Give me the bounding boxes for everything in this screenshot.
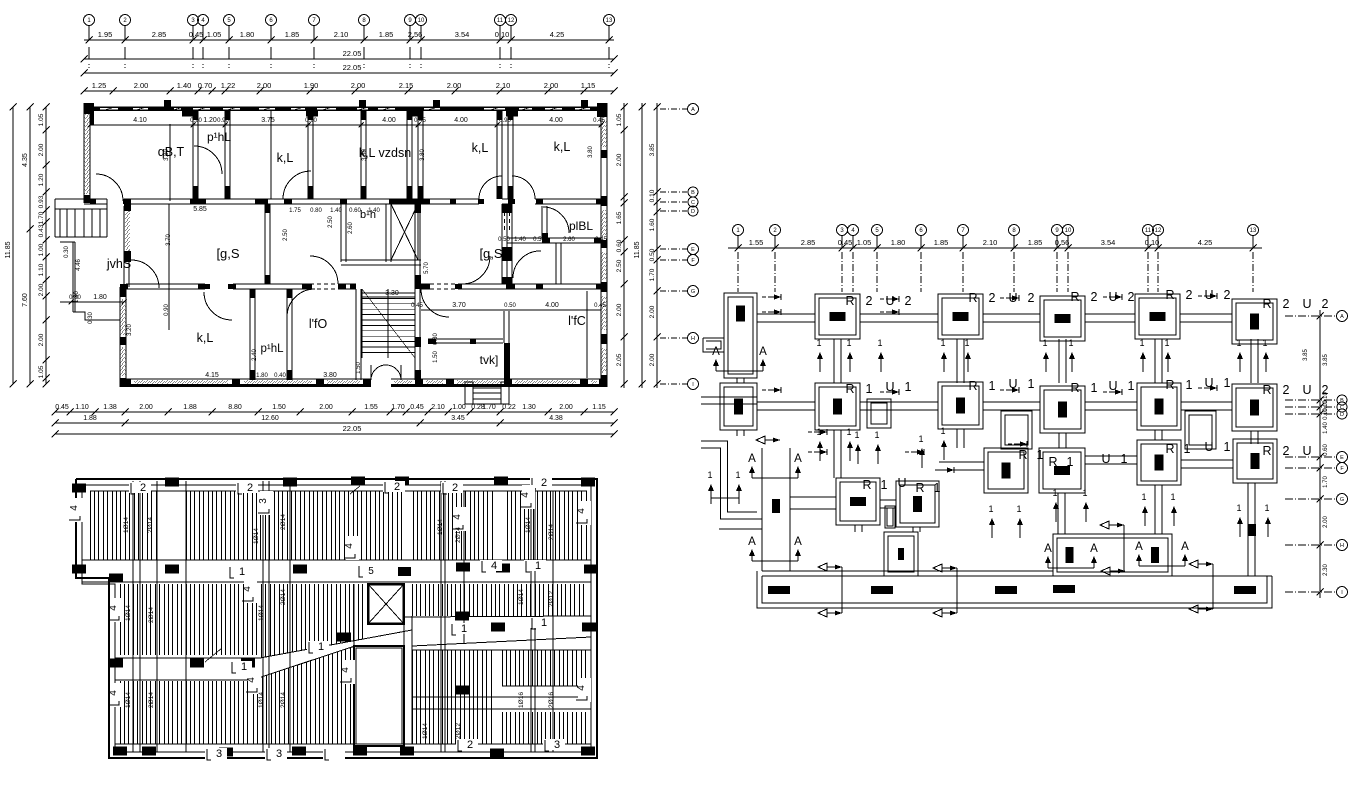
svg-text:1Ø14: 1Ø14 — [525, 517, 532, 533]
svg-text:3: 3 — [554, 739, 560, 751]
svg-text:1: 1 — [934, 481, 941, 495]
svg-text:4: 4 — [491, 560, 497, 572]
svg-text:2.10: 2.10 — [983, 238, 998, 247]
svg-text:1: 1 — [881, 478, 888, 492]
svg-text:U: U — [1101, 452, 1110, 466]
svg-text:2.00: 2.00 — [447, 81, 462, 90]
svg-text:R: R — [915, 481, 924, 495]
svg-text:1.05: 1.05 — [616, 113, 623, 126]
svg-text:1.05: 1.05 — [207, 30, 222, 39]
svg-text:10: 10 — [418, 18, 425, 24]
svg-text:4: 4 — [242, 586, 253, 592]
svg-text:3: 3 — [258, 498, 269, 504]
svg-text:1: 1 — [1068, 338, 1073, 348]
svg-text:3.45: 3.45 — [451, 415, 465, 422]
svg-text:4: 4 — [108, 690, 119, 696]
svg-text:1: 1 — [1224, 376, 1231, 390]
svg-text:11: 11 — [497, 18, 504, 24]
svg-text:4: 4 — [344, 543, 355, 549]
svg-text:0.90: 0.90 — [164, 304, 170, 316]
svg-text:1Ø14: 1Ø14 — [123, 517, 130, 533]
svg-text:2: 2 — [1283, 297, 1290, 311]
svg-text:1: 1 — [1141, 492, 1146, 502]
svg-text:2.00: 2.00 — [559, 404, 573, 411]
svg-text:3.70: 3.70 — [166, 234, 172, 246]
svg-text:D: D — [691, 209, 695, 215]
svg-text:2.00: 2.00 — [319, 404, 333, 411]
svg-text:1: 1 — [1184, 442, 1191, 456]
svg-text:11: 11 — [1145, 228, 1152, 234]
svg-text:A: A — [712, 346, 720, 358]
svg-text:A: A — [1340, 314, 1344, 320]
svg-text:3.80: 3.80 — [588, 146, 594, 158]
svg-text:1Ø14: 1Ø14 — [518, 589, 525, 605]
svg-text:1.88: 1.88 — [83, 415, 97, 422]
svg-text:2.00: 2.00 — [649, 353, 656, 366]
svg-text:2.56: 2.56 — [408, 30, 423, 39]
svg-text:1.15: 1.15 — [581, 81, 596, 90]
svg-text:0.93: 0.93 — [38, 195, 45, 208]
svg-text:[g,S: [g,S — [479, 246, 502, 261]
svg-text:1: 1 — [866, 382, 873, 396]
svg-text:12: 12 — [508, 18, 515, 24]
svg-text:4: 4 — [108, 605, 119, 611]
svg-text:1: 1 — [535, 560, 541, 572]
svg-text:1: 1 — [318, 641, 324, 653]
svg-text:1.30: 1.30 — [522, 404, 536, 411]
svg-text:12: 12 — [1155, 228, 1162, 234]
svg-text:2.00: 2.00 — [351, 81, 366, 90]
svg-text:1.10: 1.10 — [38, 263, 45, 276]
svg-text:R: R — [1262, 383, 1271, 397]
svg-text:2Ø14: 2Ø14 — [280, 692, 287, 708]
svg-text:3.80: 3.80 — [323, 372, 337, 379]
svg-text:1: 1 — [854, 430, 859, 440]
svg-text:2: 2 — [1028, 291, 1035, 305]
svg-text:[g,S: [g,S — [216, 246, 239, 261]
svg-text:3.85: 3.85 — [1303, 349, 1309, 361]
svg-text:G: G — [1340, 497, 1344, 503]
svg-text:U: U — [1302, 297, 1311, 311]
svg-text:0.30: 0.30 — [64, 246, 70, 258]
svg-text:1: 1 — [1082, 488, 1087, 498]
svg-text:A: A — [794, 536, 802, 548]
svg-text:1: 1 — [1186, 378, 1193, 392]
svg-text:0.45: 0.45 — [189, 30, 204, 39]
svg-text:1: 1 — [1042, 338, 1047, 348]
svg-text:4: 4 — [452, 514, 463, 520]
svg-text:k,L: k,L — [277, 151, 294, 165]
svg-text:B: B — [1340, 398, 1344, 404]
svg-text:1.38: 1.38 — [103, 404, 117, 411]
svg-text:1Ø14: 1Ø14 — [253, 528, 260, 544]
svg-text:G: G — [691, 289, 695, 295]
svg-text:4.15: 4.15 — [205, 372, 219, 379]
svg-text:11.85: 11.85 — [634, 241, 641, 258]
svg-text:2Ø14: 2Ø14 — [455, 527, 462, 543]
svg-text:p¹hL: p¹hL — [260, 343, 284, 355]
svg-text:2: 2 — [467, 739, 473, 751]
svg-text:1: 1 — [461, 623, 467, 635]
svg-text:2Ø16: 2Ø16 — [548, 692, 555, 708]
svg-text:k,L: k,L — [472, 141, 489, 155]
svg-text:4.38: 4.38 — [549, 415, 563, 422]
svg-text:1.55: 1.55 — [364, 404, 378, 411]
svg-text:2: 2 — [140, 482, 146, 494]
svg-text:2.00: 2.00 — [649, 305, 656, 318]
svg-text:3.70: 3.70 — [452, 302, 466, 309]
svg-text:0.45: 0.45 — [593, 118, 605, 124]
svg-text:1: 1 — [940, 426, 945, 436]
svg-text:1.55: 1.55 — [749, 238, 764, 247]
svg-text:0.30: 0.30 — [88, 312, 94, 324]
svg-text:0.10: 0.10 — [649, 189, 656, 202]
svg-text:R: R — [1262, 444, 1271, 458]
svg-text:1.85: 1.85 — [1028, 238, 1043, 247]
svg-text:0.50: 0.50 — [649, 248, 656, 261]
svg-text:4.10: 4.10 — [133, 117, 147, 124]
svg-text:4.00: 4.00 — [549, 117, 563, 124]
svg-text:1: 1 — [1128, 379, 1135, 393]
svg-text:1.80: 1.80 — [240, 30, 255, 39]
svg-text:22.05: 22.05 — [343, 424, 362, 433]
svg-text:1.40: 1.40 — [1323, 422, 1329, 434]
svg-text:R: R — [845, 382, 854, 396]
svg-text:5.85: 5.85 — [193, 206, 207, 213]
svg-text:1: 1 — [918, 434, 923, 444]
svg-text:1.95: 1.95 — [98, 30, 113, 39]
svg-text:1Ø14: 1Ø14 — [258, 692, 265, 708]
svg-text:1: 1 — [1121, 452, 1128, 466]
svg-text:0.45: 0.45 — [411, 303, 423, 309]
svg-text:1: 1 — [989, 379, 996, 393]
svg-text:1: 1 — [1236, 503, 1241, 513]
svg-text:2.00: 2.00 — [616, 303, 623, 316]
svg-text:2: 2 — [1224, 288, 1231, 302]
svg-text:1Ø14: 1Ø14 — [125, 605, 132, 621]
svg-text:1.85: 1.85 — [379, 30, 394, 39]
svg-text:R: R — [862, 478, 871, 492]
svg-text:k,L: k,L — [197, 331, 214, 345]
svg-text:R: R — [1262, 297, 1271, 311]
svg-text:1.85: 1.85 — [934, 238, 949, 247]
svg-text:5.70: 5.70 — [424, 262, 430, 274]
svg-text:l'fO: l'fO — [309, 317, 328, 331]
svg-text:2: 2 — [541, 477, 547, 489]
svg-text:2.50: 2.50 — [283, 229, 289, 241]
svg-text:1: 1 — [239, 566, 245, 578]
svg-text:R: R — [968, 379, 977, 393]
svg-text:A: A — [1090, 543, 1098, 555]
svg-text:1: 1 — [1236, 338, 1241, 348]
svg-text:A: A — [794, 453, 802, 465]
svg-text:1: 1 — [1067, 455, 1074, 469]
svg-text:2: 2 — [1186, 288, 1193, 302]
svg-text:0.45: 0.45 — [594, 303, 606, 309]
svg-text:1.00: 1.00 — [452, 404, 466, 411]
svg-text:1.70: 1.70 — [649, 268, 656, 281]
svg-text:2.50: 2.50 — [328, 216, 334, 228]
svg-text:2.00: 2.00 — [1323, 516, 1329, 528]
svg-text:2.85: 2.85 — [152, 30, 167, 39]
svg-text:2: 2 — [905, 294, 912, 308]
svg-text:0.90: 0.90 — [217, 118, 229, 124]
svg-text:13: 13 — [606, 18, 613, 24]
svg-text:1.25: 1.25 — [92, 81, 107, 90]
svg-text:0.10: 0.10 — [1323, 408, 1329, 420]
svg-text:k,L: k,L — [554, 140, 571, 154]
svg-text:2.10: 2.10 — [431, 404, 445, 411]
svg-text:1.05: 1.05 — [38, 365, 45, 378]
svg-text:3.85: 3.85 — [649, 143, 656, 156]
svg-text:R: R — [1070, 290, 1079, 304]
svg-text:1Ø14: 1Ø14 — [422, 723, 429, 739]
svg-text:2.50: 2.50 — [616, 259, 623, 272]
svg-text:4.35: 4.35 — [22, 153, 29, 167]
svg-text:1: 1 — [846, 338, 851, 348]
svg-text:5: 5 — [368, 566, 374, 577]
svg-text:8.80: 8.80 — [228, 404, 242, 411]
svg-text:1: 1 — [1052, 488, 1057, 498]
svg-text:4: 4 — [576, 508, 587, 514]
svg-text:4.46: 4.46 — [76, 259, 82, 271]
svg-text:0.45: 0.45 — [55, 404, 69, 411]
svg-text:plΒL: plΒL — [569, 219, 593, 233]
svg-text:1: 1 — [846, 427, 851, 437]
svg-text:1: 1 — [1139, 338, 1144, 348]
svg-text:A: A — [691, 107, 695, 113]
svg-text:1.20: 1.20 — [38, 173, 45, 186]
svg-text:1: 1 — [1262, 338, 1267, 348]
svg-text:0.50: 0.50 — [533, 237, 545, 243]
svg-text:1.90: 1.90 — [304, 81, 319, 90]
svg-text:1.70: 1.70 — [1323, 476, 1329, 488]
svg-text:2.00: 2.00 — [257, 81, 272, 90]
svg-text:0.60: 0.60 — [616, 239, 623, 252]
svg-text:2.40: 2.40 — [252, 349, 258, 361]
svg-text:1.40: 1.40 — [368, 208, 380, 214]
svg-text:3.85: 3.85 — [1323, 354, 1329, 366]
svg-text:U: U — [1302, 383, 1311, 397]
svg-text:1: 1 — [541, 617, 547, 629]
svg-text:1.40: 1.40 — [330, 208, 342, 214]
svg-text:1.00: 1.00 — [38, 243, 45, 256]
svg-text:1: 1 — [1028, 377, 1035, 391]
svg-text:4: 4 — [69, 505, 80, 511]
svg-text:E: E — [691, 247, 695, 253]
svg-text:2.15: 2.15 — [399, 81, 414, 90]
svg-text:3.54: 3.54 — [1101, 238, 1116, 247]
svg-text:1.10: 1.10 — [75, 404, 89, 411]
svg-text:1.50: 1.50 — [433, 351, 439, 363]
svg-text:1: 1 — [940, 338, 945, 348]
svg-text:1Ø16: 1Ø16 — [518, 692, 525, 708]
svg-text:3.30: 3.30 — [385, 290, 399, 297]
svg-text:2.00: 2.00 — [38, 283, 45, 296]
svg-text:1: 1 — [874, 430, 879, 440]
svg-text:0.22: 0.22 — [502, 404, 516, 411]
svg-text:2.05: 2.05 — [616, 353, 623, 366]
svg-text:2.00: 2.00 — [616, 153, 623, 166]
svg-text:A: A — [1181, 541, 1189, 553]
svg-text:10: 10 — [1065, 228, 1072, 234]
svg-text:2: 2 — [247, 482, 253, 494]
svg-text:1: 1 — [905, 380, 912, 394]
svg-text:R: R — [1165, 288, 1174, 302]
svg-text:1.85: 1.85 — [285, 30, 300, 39]
svg-text:2Ø14: 2Ø14 — [148, 607, 155, 623]
svg-text:1: 1 — [1016, 504, 1021, 514]
svg-text:0.40: 0.40 — [274, 373, 286, 379]
svg-text:22.05: 22.05 — [343, 63, 362, 72]
svg-text:1.05: 1.05 — [857, 238, 872, 247]
svg-text:U: U — [1204, 440, 1213, 454]
svg-text:2.00: 2.00 — [139, 404, 153, 411]
svg-text:2: 2 — [394, 481, 400, 493]
svg-text:0.50: 0.50 — [498, 237, 510, 243]
svg-text:0.70: 0.70 — [198, 81, 213, 90]
svg-text:2.00: 2.00 — [134, 81, 149, 90]
svg-text:0.43: 0.43 — [38, 224, 45, 237]
svg-text:2: 2 — [989, 291, 996, 305]
svg-text:1: 1 — [241, 661, 247, 673]
svg-text:1.50: 1.50 — [272, 404, 286, 411]
svg-text:2.30: 2.30 — [1323, 564, 1329, 576]
svg-text:1.75: 1.75 — [289, 208, 301, 214]
svg-text:2.00: 2.00 — [38, 333, 45, 346]
svg-text:0.30: 0.30 — [433, 333, 439, 345]
svg-text:3: 3 — [276, 748, 282, 760]
svg-text:0.45: 0.45 — [595, 237, 607, 243]
svg-text:1.05: 1.05 — [38, 113, 45, 126]
svg-text:3.75: 3.75 — [261, 117, 275, 124]
svg-text:0.45: 0.45 — [410, 404, 424, 411]
svg-text:C: C — [691, 200, 695, 206]
svg-text:3.20: 3.20 — [127, 324, 133, 336]
svg-text:4: 4 — [246, 677, 257, 683]
svg-text:A: A — [759, 346, 767, 358]
svg-text:1: 1 — [988, 504, 993, 514]
svg-text:1.50: 1.50 — [356, 362, 362, 374]
svg-text:0.80: 0.80 — [310, 208, 322, 214]
svg-text:1.80: 1.80 — [256, 373, 268, 379]
svg-text:0.90: 0.90 — [190, 118, 202, 124]
svg-text:R: R — [845, 294, 854, 308]
svg-text:2: 2 — [1322, 383, 1329, 397]
svg-text:1Ø14: 1Ø14 — [125, 692, 132, 708]
svg-text:2.60: 2.60 — [348, 222, 354, 234]
svg-text:1.80: 1.80 — [93, 294, 107, 301]
svg-text:D: D — [1340, 412, 1344, 418]
svg-text:3.80: 3.80 — [362, 149, 368, 161]
svg-text:2Ø12: 2Ø12 — [455, 723, 462, 739]
svg-text:3.54: 3.54 — [455, 30, 470, 39]
svg-text:3.80: 3.80 — [164, 149, 170, 161]
svg-text:2.00: 2.00 — [38, 143, 45, 156]
svg-text:2Ø14: 2Ø14 — [548, 524, 555, 540]
svg-text:2Ø14: 2Ø14 — [148, 692, 155, 708]
svg-text:1.22: 1.22 — [221, 81, 236, 90]
svg-text:1: 1 — [1164, 338, 1169, 348]
svg-text:2.60: 2.60 — [563, 237, 575, 243]
svg-text:1: 1 — [877, 338, 882, 348]
svg-text:2Ø14: 2Ø14 — [147, 517, 154, 533]
svg-text:U: U — [1302, 444, 1311, 458]
svg-text:22.05: 22.05 — [343, 49, 362, 58]
svg-text:B: B — [691, 190, 695, 196]
svg-text:R: R — [1165, 378, 1174, 392]
svg-text:2: 2 — [1091, 290, 1098, 304]
svg-text:1.20: 1.20 — [203, 117, 217, 124]
svg-text:2.10: 2.10 — [496, 81, 511, 90]
svg-text:E: E — [1340, 455, 1344, 461]
svg-text:R: R — [1070, 381, 1079, 395]
svg-text:4.00: 4.00 — [382, 117, 396, 124]
svg-text:4.25: 4.25 — [550, 30, 565, 39]
svg-text:H: H — [691, 336, 695, 342]
svg-text:qB,T: qB,T — [158, 145, 185, 159]
svg-text:2Ø14: 2Ø14 — [280, 514, 287, 530]
svg-text:1.88: 1.88 — [183, 404, 197, 411]
svg-text:1: 1 — [1170, 492, 1175, 502]
svg-text:0.90: 0.90 — [305, 118, 317, 124]
svg-text:2.10: 2.10 — [334, 30, 349, 39]
svg-text:0.50: 0.50 — [504, 303, 516, 309]
svg-text:1: 1 — [1264, 503, 1269, 513]
svg-text:1Ø14: 1Ø14 — [258, 605, 265, 621]
svg-text:4: 4 — [340, 667, 351, 673]
svg-text:0.10: 0.10 — [495, 30, 510, 39]
svg-text:0.30: 0.30 — [69, 295, 81, 301]
svg-text:1.70: 1.70 — [482, 404, 496, 411]
svg-text:0.60: 0.60 — [349, 208, 361, 214]
svg-text:A: A — [1135, 541, 1143, 553]
svg-text:2.00: 2.00 — [544, 81, 559, 90]
svg-text:1: 1 — [707, 470, 712, 480]
svg-text:2: 2 — [866, 294, 873, 308]
svg-text:0.56: 0.56 — [1055, 238, 1070, 247]
svg-text:2.85: 2.85 — [801, 238, 816, 247]
svg-text:1: 1 — [735, 470, 740, 480]
svg-text:1.65: 1.65 — [616, 211, 623, 224]
svg-text:1.40: 1.40 — [514, 237, 526, 243]
svg-text:4.00: 4.00 — [545, 302, 559, 309]
svg-text:R: R — [1048, 455, 1057, 469]
svg-text:jvhS: jvhS — [106, 257, 131, 271]
svg-text:R: R — [1018, 448, 1027, 462]
svg-text:2: 2 — [1322, 297, 1329, 311]
svg-text:R: R — [968, 291, 977, 305]
svg-text:p¹hL: p¹hL — [207, 130, 231, 144]
svg-text:A: A — [1044, 543, 1052, 555]
svg-text:12.60: 12.60 — [261, 415, 279, 422]
svg-text:0.90: 0.90 — [499, 118, 511, 124]
svg-text:1: 1 — [816, 338, 821, 348]
svg-text:1.60: 1.60 — [649, 218, 656, 231]
svg-text:2Ø14: 2Ø14 — [280, 589, 287, 605]
svg-text:1: 1 — [1037, 448, 1044, 462]
svg-text:0.45: 0.45 — [838, 238, 853, 247]
svg-text:3.80: 3.80 — [420, 149, 426, 161]
svg-text:1: 1 — [964, 338, 969, 348]
svg-text:2: 2 — [1283, 444, 1290, 458]
svg-text:1.15: 1.15 — [592, 404, 606, 411]
svg-text:4.25: 4.25 — [1198, 238, 1213, 247]
svg-text:1.40: 1.40 — [177, 81, 192, 90]
svg-text:2: 2 — [1283, 383, 1290, 397]
svg-text:11.85: 11.85 — [5, 241, 12, 258]
svg-text:H: H — [1340, 543, 1344, 549]
